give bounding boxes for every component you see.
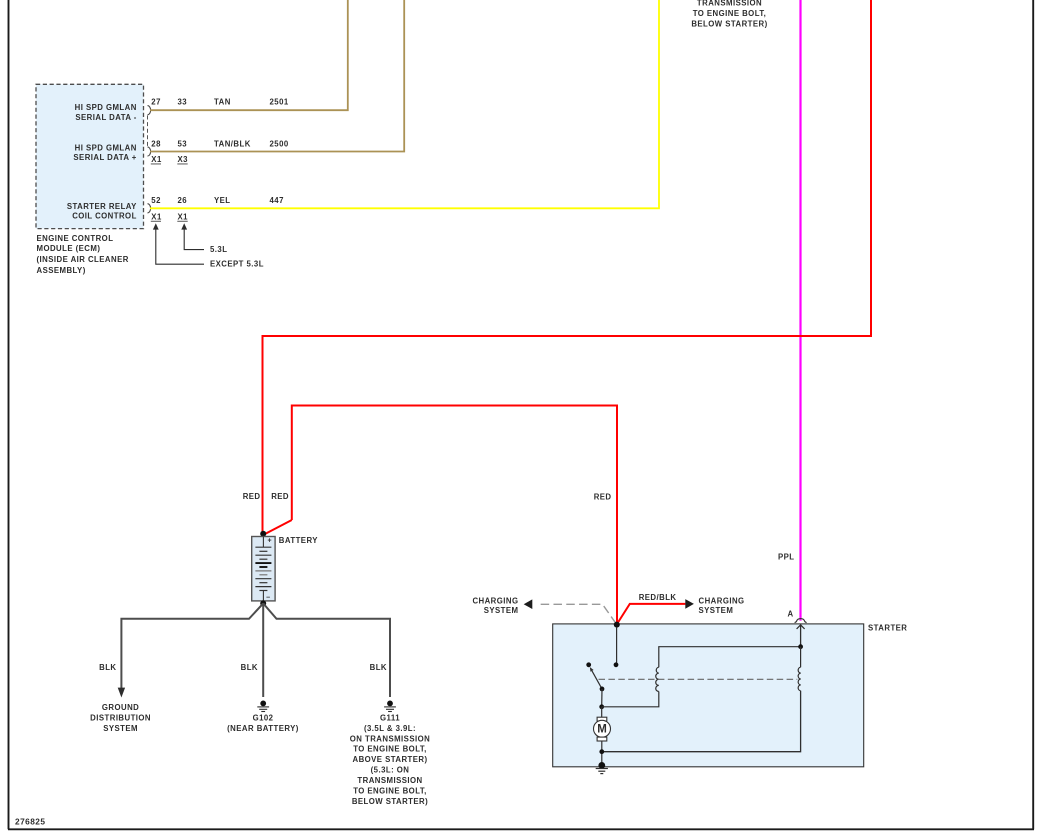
junction dot battery negative	[260, 600, 266, 606]
svg-text:SYSTEM: SYSTEM	[103, 724, 138, 733]
svg-text:DISTRIBUTION: DISTRIBUTION	[90, 714, 151, 723]
ground G102 symbol	[257, 701, 269, 712]
arrow charging system left	[524, 599, 533, 609]
svg-text:BLK: BLK	[99, 663, 116, 672]
wire TAN/BLK 2500 (pins 28/53)	[150, 0, 404, 152]
svg-text:TAN/BLK: TAN/BLK	[214, 140, 251, 149]
dashed mechanical linkage	[599, 678, 798, 680]
svg-text:X1: X1	[178, 213, 189, 222]
svg-text:TAN: TAN	[214, 98, 231, 107]
svg-text:PPL: PPL	[778, 552, 795, 561]
solenoid coil (pull-in, left)	[656, 667, 659, 691]
svg-text:5.3L: 5.3L	[210, 245, 227, 254]
wire solenoid node down to hold-in coil	[800, 647, 802, 668]
label GROUND DISTRIBUTION SYSTEM	[90, 703, 151, 733]
svg-text:STARTER RELAY: STARTER RELAY	[67, 202, 137, 211]
svg-text:−: −	[266, 594, 270, 601]
svg-text:TRANSMISSION: TRANSMISSION	[357, 776, 422, 785]
pin/value labels 27 33 TAN 2501	[151, 98, 289, 107]
svg-text:(NEAR BATTERY): (NEAR BATTERY)	[227, 724, 299, 733]
svg-text:(5.3L: ON: (5.3L: ON	[371, 766, 410, 775]
svg-text:COIL CONTROL: COIL CONTROL	[72, 212, 137, 221]
svg-text:CHARGING: CHARGING	[699, 597, 745, 606]
svg-text:EXCEPT 5.3L: EXCEPT 5.3L	[210, 260, 264, 269]
motor M	[594, 717, 611, 741]
svg-text:SYSTEM: SYSTEM	[699, 606, 734, 615]
wire TAN 2501 (pins 27/33)	[150, 0, 348, 110]
wire BLK to ground distribution	[121, 603, 263, 688]
svg-text:BELOW STARTER): BELOW STARTER)	[691, 20, 767, 29]
wire motor to case ground	[601, 741, 603, 764]
svg-text:(3.5L & 3.9L:: (3.5L & 3.9L:	[364, 724, 416, 733]
node switch pivot	[600, 687, 605, 692]
wire from B+ to switch contact	[616, 627, 618, 664]
svg-text:M: M	[597, 723, 607, 735]
junction dot starter B+ terminal	[614, 622, 620, 628]
svg-text:+: +	[267, 538, 271, 545]
svg-text:276825: 276825	[15, 817, 45, 827]
svg-text:2501: 2501	[270, 98, 289, 107]
svg-text:27: 27	[151, 98, 161, 107]
svg-text:BLK: BLK	[241, 663, 258, 672]
node motor top junction	[599, 704, 604, 709]
svg-text:28: 28	[151, 140, 161, 149]
wire YEL 447 (pins 52/26)	[150, 0, 659, 208]
svg-text:53: 53	[178, 140, 188, 149]
svg-text:TO ENGINE BOLT,: TO ENGINE BOLT,	[693, 9, 767, 18]
svg-text:ASSEMBLY): ASSEMBLY)	[37, 266, 86, 275]
svg-text:26: 26	[178, 196, 188, 205]
wire BLK to G102	[262, 603, 264, 697]
svg-text:A: A	[787, 609, 793, 618]
svg-text:BELOW STARTER): BELOW STARTER)	[352, 797, 428, 806]
svg-text:YEL: YEL	[214, 196, 231, 205]
svg-text:G111: G111	[380, 714, 400, 723]
connector dashed boundary X1	[147, 116, 149, 147]
svg-text:RED/BLK: RED/BLK	[639, 593, 677, 602]
svg-text:TRANSMISSION: TRANSMISSION	[697, 0, 762, 8]
svg-text:STARTER: STARTER	[868, 624, 907, 633]
pin 52 connector arc	[148, 204, 151, 213]
svg-text:SYSTEM: SYSTEM	[484, 606, 519, 615]
svg-text:SERIAL DATA +: SERIAL DATA +	[73, 153, 136, 162]
ground (starter case)	[596, 762, 608, 774]
svg-text:X1: X1	[151, 155, 162, 164]
svg-text:HI SPD GMLAN: HI SPD GMLAN	[75, 143, 137, 152]
wire RED/BLK to charging system (right)	[617, 604, 685, 624]
svg-text:BLK: BLK	[370, 663, 387, 672]
wire coil top to solenoid node	[659, 647, 801, 668]
ECM module box (Engine Control Module)	[36, 84, 144, 228]
solenoid coil (hold-in, right)	[798, 667, 800, 691]
svg-text:GROUND: GROUND	[102, 703, 139, 712]
svg-text:ABOVE STARTER): ABOVE STARTER)	[352, 755, 427, 764]
svg-text:RED: RED	[271, 492, 289, 501]
ground G111 symbol	[384, 701, 396, 712]
ECM pin label STARTER RELAY COIL CONTROL	[67, 202, 137, 221]
label G111 note	[350, 714, 430, 806]
node motor negative junction	[599, 749, 604, 754]
callout arrow EXCEPT 5.3L	[153, 223, 264, 268]
svg-text:447: 447	[270, 196, 284, 205]
callout arrow 5.3L	[181, 223, 227, 254]
node switch fixed contact	[586, 662, 591, 667]
wire BLK to G111	[263, 603, 390, 697]
wire RED diagonal into battery junction	[264, 520, 292, 535]
note text (top): TRANSMISSION TO ENGINE BOLT, BELOW STARTER)	[691, 0, 767, 29]
pin/value labels 52 26 YEL 447	[151, 196, 284, 205]
arrow to ground distribution system	[118, 688, 125, 698]
svg-text:33: 33	[178, 98, 188, 107]
wire motor node to motor	[601, 707, 603, 718]
svg-text:RED: RED	[594, 493, 612, 502]
ECM pin label HI SPD GMLAN SERIAL DATA +	[73, 143, 136, 162]
svg-text:ON TRANSMISSION: ON TRANSMISSION	[350, 734, 430, 743]
junction dot battery positive	[260, 531, 266, 537]
svg-text:RED: RED	[243, 492, 261, 501]
connector labels X1 X1	[151, 213, 188, 222]
battery	[252, 537, 275, 602]
ECM pin label HI SPD GMLAN SERIAL DATA -	[75, 103, 137, 122]
wire hold-in coil to motor ground run	[602, 691, 801, 752]
connector labels X1 X3	[151, 155, 188, 164]
svg-text:2500: 2500	[270, 140, 289, 149]
svg-text:BATTERY: BATTERY	[279, 536, 318, 545]
wire RED (second feed to starter B+)	[292, 406, 617, 623]
arrow charging system right	[685, 599, 694, 609]
starter box	[553, 624, 864, 767]
connector arc pin A	[795, 619, 807, 623]
pin 28 connector arc	[148, 147, 151, 156]
wire RED (battery positive feed, main)	[263, 0, 872, 532]
svg-text:HI SPD GMLAN: HI SPD GMLAN	[75, 103, 137, 112]
node switch input	[614, 662, 619, 667]
wire switch to motor node	[601, 689, 603, 707]
svg-text:MODULE (ECM): MODULE (ECM)	[37, 244, 101, 253]
ECM name label	[37, 234, 129, 275]
node solenoid feed	[798, 644, 803, 649]
wire to pull-in coil	[602, 692, 659, 707]
wire PPL (to starter solenoid)	[799, 0, 801, 621]
svg-text:X3: X3	[178, 155, 189, 164]
svg-text:X1: X1	[151, 213, 162, 222]
svg-text:G102: G102	[253, 713, 274, 722]
svg-text:SERIAL DATA -: SERIAL DATA -	[75, 113, 136, 122]
label G102 (NEAR BATTERY)	[227, 713, 299, 733]
svg-text:(INSIDE AIR CLEANER: (INSIDE AIR CLEANER	[37, 255, 129, 264]
svg-text:ENGINE CONTROL: ENGINE CONTROL	[37, 234, 114, 243]
solenoid terminal entry arrow	[800, 625, 802, 647]
pin 27 connector arc	[148, 106, 151, 115]
label CHARGING SYSTEM (right)	[699, 597, 745, 615]
svg-text:TO ENGINE BOLT,: TO ENGINE BOLT,	[353, 787, 427, 796]
svg-text:TO ENGINE BOLT,: TO ENGINE BOLT,	[353, 745, 427, 754]
svg-text:52: 52	[151, 196, 161, 205]
svg-text:CHARGING: CHARGING	[472, 597, 518, 606]
label CHARGING SYSTEM (left)	[472, 597, 518, 615]
dashed link to charging system (left)	[537, 604, 616, 623]
switch arm (solenoid contacts)	[592, 671, 602, 689]
pin/value labels 28 53 TAN/BLK 2500	[151, 140, 289, 149]
